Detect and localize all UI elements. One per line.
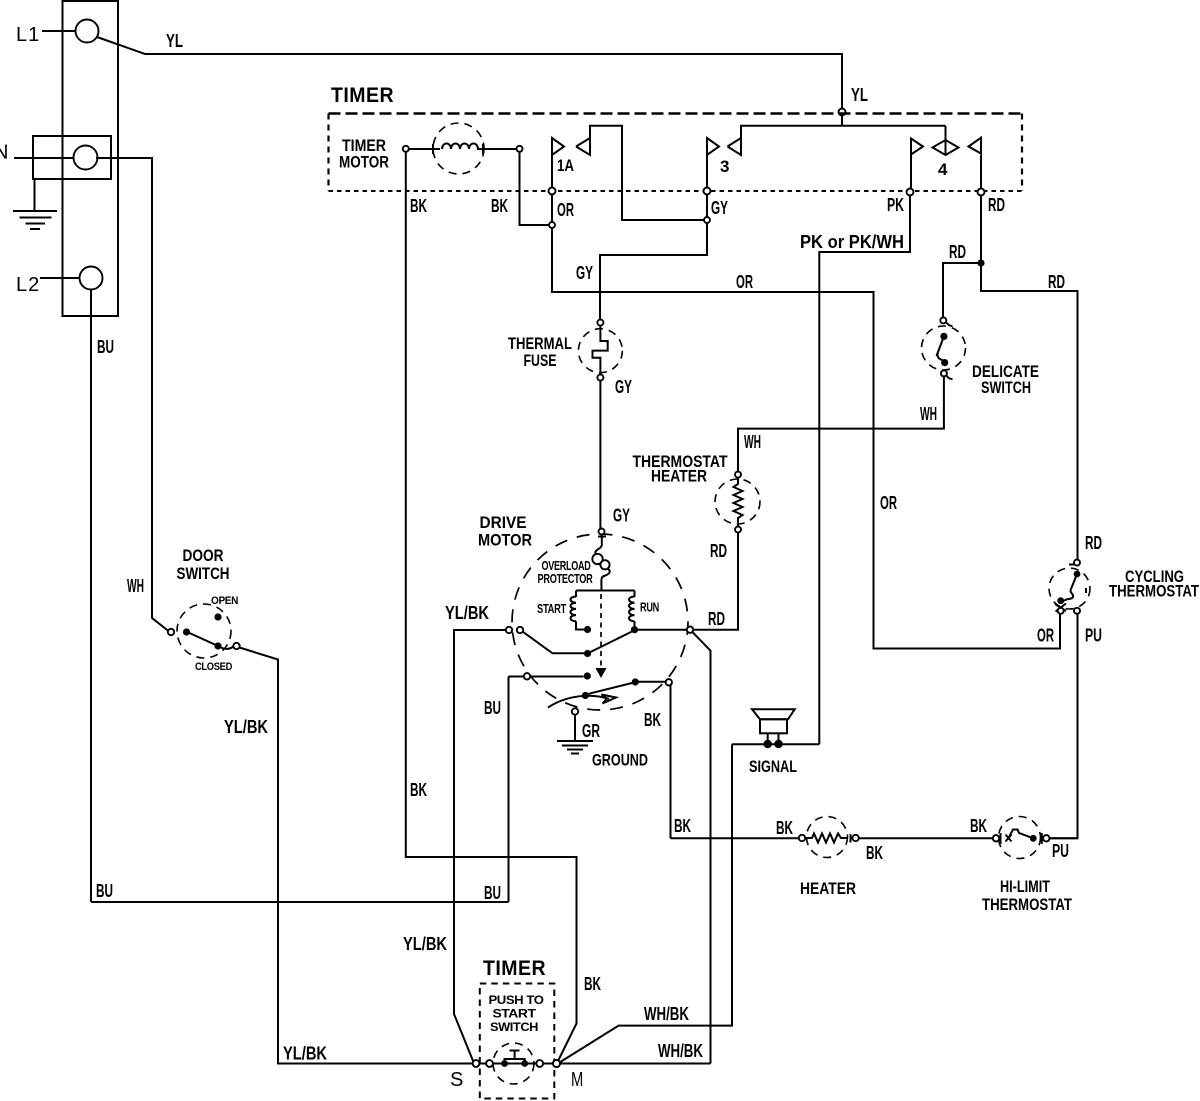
cycling thermostat PU terminal xyxy=(1074,608,1080,614)
svg-text:SIGNAL: SIGNAL xyxy=(749,757,797,776)
node lower contact a xyxy=(584,672,591,679)
push to start switch S5 xyxy=(473,1043,561,1084)
svg-text:YL: YL xyxy=(851,85,868,105)
wire signal bus xyxy=(732,743,819,745)
svg-text:OR: OR xyxy=(880,493,897,513)
node OR-BK junction xyxy=(549,222,555,228)
delicate switch top terminal xyxy=(940,317,946,323)
node door switch pivot xyxy=(183,628,190,635)
rotation arrowhead xyxy=(602,695,617,704)
ground chassis xyxy=(13,211,57,229)
svg-text:RD: RD xyxy=(988,195,1005,215)
wire GY fuse to motor xyxy=(599,381,601,529)
wire main S-M line xyxy=(278,1063,711,1065)
svg-text:YL/BK: YL/BK xyxy=(445,603,489,623)
start winding bottom lead xyxy=(576,621,585,629)
motor BU terminal xyxy=(524,673,530,679)
contact 1A left flag xyxy=(552,138,564,155)
node start winding contact xyxy=(584,626,591,633)
terminal M circle xyxy=(553,1060,560,1067)
svg-text:SWITCH: SWITCH xyxy=(490,1020,538,1034)
overload protector lead xyxy=(595,535,601,554)
N terminal box xyxy=(33,136,111,179)
svg-text:BK: BK xyxy=(970,816,987,836)
node signal terminal left xyxy=(764,740,772,748)
svg-text:BK: BK xyxy=(584,974,601,994)
wire BU motor down xyxy=(508,677,510,903)
thermostat heater resistor element xyxy=(734,478,743,527)
heater right terminal xyxy=(852,835,858,841)
svg-text:WH/BK: WH/BK xyxy=(658,1041,703,1061)
svg-text:THERMOSTAT: THERMOSTAT xyxy=(1109,582,1199,601)
wire to BK terminal xyxy=(635,681,665,683)
wire YL/BK motor to start switch xyxy=(454,630,506,1062)
contact 4 right flag xyxy=(969,138,982,154)
node door switch OPEN contact xyxy=(214,613,221,620)
wire BK timer motor right xyxy=(520,152,550,225)
svg-text:RD: RD xyxy=(710,541,727,561)
svg-text:4: 4 xyxy=(938,160,948,179)
thermostat heater bottom terminal xyxy=(735,527,741,533)
door switch S1 xyxy=(168,604,240,658)
svg-text:BK: BK xyxy=(644,710,661,730)
wire L2 lead xyxy=(40,277,80,279)
svg-text:WH: WH xyxy=(127,576,144,596)
svg-text:GY: GY xyxy=(711,198,728,218)
heater left terminal xyxy=(799,835,805,841)
svg-text:BU: BU xyxy=(97,337,114,357)
timer motor coil end ticks xyxy=(433,144,483,154)
wire BU from L2 down xyxy=(91,290,509,903)
node PK at timer border xyxy=(907,189,914,196)
thermal fuse top terminal xyxy=(597,320,603,326)
node GY at timer border xyxy=(704,188,711,195)
door switch dashed housing xyxy=(177,604,231,658)
contact 4 diamond wiper xyxy=(933,140,959,155)
svg-text:3: 3 xyxy=(720,157,729,176)
terminal L1 xyxy=(76,20,99,43)
wire WH/BK signal to M xyxy=(560,744,733,1062)
thermal fuse dashed housing xyxy=(578,329,622,373)
hi-limit contact cross xyxy=(1006,835,1012,842)
hi-limit right tick xyxy=(1041,833,1043,844)
cycling thermostat housing tick xyxy=(1085,588,1087,593)
wire YL/BK door switch to S xyxy=(240,648,474,1064)
overload protector outlet lead xyxy=(601,569,609,591)
svg-text:BU: BU xyxy=(484,698,501,718)
centrifugal switch arm upper xyxy=(523,632,585,654)
wire BU lead inside motor xyxy=(509,676,584,678)
motor YL/BK terminal outer xyxy=(506,627,512,633)
contact 4 left flag xyxy=(911,139,923,155)
timer box U1 xyxy=(329,114,1023,192)
motor BK terminal xyxy=(666,679,672,685)
node delicate switch top contact xyxy=(940,333,947,340)
svg-text:MOTOR: MOTOR xyxy=(339,153,389,172)
svg-text:WH/BK: WH/BK xyxy=(644,1004,689,1024)
wire RD thermostat heater down xyxy=(693,533,738,630)
motor terminal tick xyxy=(598,536,606,538)
node GY junction xyxy=(704,217,710,223)
push switch dashed housing xyxy=(493,1043,534,1084)
drive motor dashed housing xyxy=(512,534,688,710)
svg-text:BU: BU xyxy=(484,883,501,903)
svg-text:TIMER: TIMER xyxy=(483,957,546,980)
thermostat heater R1 xyxy=(715,472,760,533)
node RD at timer border xyxy=(978,189,985,196)
lower switch arm xyxy=(589,683,633,694)
timer motor dashed housing xyxy=(433,123,484,174)
wire YL from L1 to timer xyxy=(97,37,842,126)
hi-limit dashed housing xyxy=(999,817,1041,859)
rotation arrow arc xyxy=(548,696,609,708)
svg-text:HI-LIMIT: HI-LIMIT xyxy=(1000,877,1050,896)
svg-text:SWITCH: SWITCH xyxy=(981,378,1031,397)
svg-text:CLOSED: CLOSED xyxy=(195,661,232,673)
svg-text:START: START xyxy=(493,1007,537,1021)
wire BK motor to heater line xyxy=(670,685,672,839)
delicate switch top hook xyxy=(947,323,953,327)
svg-text:BK: BK xyxy=(491,196,508,216)
svg-text:BU: BU xyxy=(96,881,113,901)
thermostat heater dashed housing xyxy=(715,479,760,524)
actuator arrowhead xyxy=(596,668,607,678)
svg-text:RD: RD xyxy=(708,609,725,629)
svg-text:BK: BK xyxy=(410,780,427,800)
node run winding junction xyxy=(631,626,638,633)
wire N to chassis ground xyxy=(34,179,36,210)
svg-text:1A: 1A xyxy=(557,156,574,175)
svg-text:N: N xyxy=(0,142,9,164)
node push contact right xyxy=(521,1060,528,1067)
door switch arm xyxy=(190,633,219,646)
wire N lead xyxy=(14,157,74,159)
push switch bridge xyxy=(505,1059,525,1064)
thermostat heater top terminal xyxy=(735,472,741,478)
signal horn bell xyxy=(752,709,795,719)
cycling thermostat dashed housing xyxy=(1049,568,1090,609)
svg-text:L2: L2 xyxy=(16,274,40,296)
node signal terminal right xyxy=(774,740,782,748)
wire timer motor leads xyxy=(409,148,518,150)
start winding lead xyxy=(575,591,577,598)
svg-text:GY: GY xyxy=(576,263,593,283)
svg-text:SWITCH: SWITCH xyxy=(177,564,230,583)
terminal block TB1 xyxy=(63,1,119,316)
svg-text:FUSE: FUSE xyxy=(524,351,557,370)
overload protector disc 1 xyxy=(592,554,602,564)
run winding lead xyxy=(634,591,636,598)
push to start switch box xyxy=(480,984,555,1099)
node switch arm contact xyxy=(584,650,591,657)
wire PK to signal xyxy=(819,196,910,745)
node hi-limit contact xyxy=(1030,835,1037,842)
delicate switch arm xyxy=(937,336,944,360)
delicate switch bottom hook xyxy=(947,376,953,380)
node lower arm contact xyxy=(632,678,639,685)
cycling thermostat bimetal arm xyxy=(1064,574,1077,601)
svg-text:PU: PU xyxy=(1085,626,1102,646)
svg-text:YL: YL xyxy=(166,31,183,51)
svg-text:DRIVE: DRIVE xyxy=(480,513,527,532)
svg-text:DOOR: DOOR xyxy=(183,546,224,565)
svg-text:PU: PU xyxy=(1052,841,1069,861)
svg-text:PUSH TO: PUSH TO xyxy=(489,993,544,1007)
timer contact 1A xyxy=(552,126,704,220)
svg-text:PROTECTOR: PROTECTOR xyxy=(538,571,594,586)
svg-text:YL/BK: YL/BK xyxy=(403,934,447,954)
door switch left terminal xyxy=(168,629,174,635)
node RD junction dot xyxy=(977,259,984,266)
svg-text:MOTOR: MOTOR xyxy=(478,531,532,550)
drive motor M1 xyxy=(506,529,693,711)
heater dashed housing xyxy=(807,817,848,858)
push switch right terminal xyxy=(536,1060,543,1067)
svg-text:RUN: RUN xyxy=(640,600,659,615)
timer contact 3 xyxy=(707,126,946,188)
wire BK timer motor left xyxy=(406,152,577,1062)
overload protector disc 2 xyxy=(600,560,609,569)
contact 1A right flag and wire to GY node xyxy=(576,126,704,220)
timer motor coil xyxy=(442,144,478,150)
node door switch CLOSED contact xyxy=(214,642,221,649)
wire contact 4 feed xyxy=(945,126,947,140)
terminal L2 xyxy=(80,267,103,290)
svg-text:HEATER: HEATER xyxy=(800,879,856,898)
hi-limit bimetal arm xyxy=(1009,830,1034,839)
svg-text:THERMOSTAT: THERMOSTAT xyxy=(982,895,1072,914)
thermal fuse element xyxy=(593,326,608,375)
thermal fuse F1 xyxy=(578,320,622,381)
motor YL/BK terminal inner xyxy=(517,627,523,633)
svg-text:RD: RD xyxy=(1048,272,1065,292)
delicate switch dashed housing xyxy=(922,326,966,370)
contact 3 right flag and feed wire to contact 4 xyxy=(728,126,946,155)
terminal N xyxy=(74,146,98,170)
cycling thermostat contact cross xyxy=(1055,604,1066,612)
door switch contact hook xyxy=(221,647,234,649)
ground at motor xyxy=(557,741,593,754)
hi-limit left tick xyxy=(1000,833,1002,844)
node cycling thermostat top contact xyxy=(1074,571,1081,578)
timer motor left terminal xyxy=(403,146,409,152)
timer contact 4 xyxy=(911,126,981,188)
node OR at timer border xyxy=(549,188,556,195)
svg-text:RD: RD xyxy=(1085,533,1102,553)
motor RD terminal xyxy=(687,627,693,633)
svg-text:BK: BK xyxy=(776,818,793,838)
svg-text:OR: OR xyxy=(557,200,574,220)
heater resistor element xyxy=(805,834,848,843)
wire PU cycling to hi-limit xyxy=(1050,614,1078,839)
wire OR from timer to cycling thermostat xyxy=(552,195,1060,649)
hi-limit right terminal xyxy=(1043,835,1049,841)
wire WH from N to door switch xyxy=(96,158,169,631)
svg-text:OR: OR xyxy=(1037,626,1054,646)
start winding coil xyxy=(570,597,576,622)
node lower contact b xyxy=(582,692,589,699)
svg-text:YL/BK: YL/BK xyxy=(283,1044,327,1064)
wire L1 lead xyxy=(42,30,76,32)
motor ground terminal xyxy=(572,708,578,714)
motor GY terminal xyxy=(599,529,605,535)
terminal S circle xyxy=(473,1060,480,1067)
signal buzzer LS1 xyxy=(752,709,795,748)
thermal fuse bottom terminal xyxy=(597,375,603,381)
hi-limit thermostat S4 xyxy=(993,817,1050,859)
svg-text:PK: PK xyxy=(887,195,904,215)
cycling thermostat S3 xyxy=(1049,560,1090,614)
node YL entry circle xyxy=(839,109,846,116)
cycling thermostat OR terminal xyxy=(1058,608,1064,614)
svg-text:GR: GR xyxy=(582,721,600,741)
node push contact left xyxy=(501,1060,508,1067)
wire contact 4 legs to PK and RD border nodes xyxy=(911,155,981,188)
delicate switch bottom terminal xyxy=(941,370,947,376)
run winding bottom lead xyxy=(634,621,636,629)
cycling thermostat RD terminal xyxy=(1074,560,1080,566)
node cycling thermostat bottom contact xyxy=(1057,597,1064,604)
push switch actuator xyxy=(510,1051,520,1060)
wire contact 3 to GY border node xyxy=(706,137,708,188)
push switch left terminal xyxy=(486,1060,493,1067)
wire GY from timer to thermal fuse xyxy=(600,195,707,320)
signal leads xyxy=(768,733,779,741)
delicate switch S2 xyxy=(922,317,966,379)
svg-text:WH: WH xyxy=(920,404,937,424)
heater R2 xyxy=(799,817,859,858)
wire BK main heater line xyxy=(671,837,1078,839)
run winding coil xyxy=(629,597,635,622)
svg-text:HEATER: HEATER xyxy=(651,467,707,486)
heater terminal tick xyxy=(850,834,852,843)
wire switch contact to run junction xyxy=(591,632,633,653)
svg-text:GY: GY xyxy=(615,377,632,397)
svg-text:BK: BK xyxy=(410,196,427,216)
hi-limit left terminal xyxy=(993,835,999,841)
svg-text:BK: BK xyxy=(866,843,883,863)
winding bus bar xyxy=(576,590,635,592)
timer motor right terminal xyxy=(517,146,523,152)
contact 3 left flag xyxy=(707,138,719,155)
svg-text:OR: OR xyxy=(736,272,753,292)
node delicate switch bottom contact xyxy=(941,359,948,366)
svg-text:OPEN: OPEN xyxy=(211,595,238,607)
actuator dashed link xyxy=(600,594,602,666)
wire WH/BK motor to M terminal xyxy=(692,632,710,1064)
wire contact 1A to OR node xyxy=(551,137,553,188)
svg-text:PK or PK/WH: PK or PK/WH xyxy=(800,232,904,252)
svg-text:RD: RD xyxy=(949,242,966,262)
svg-text:YL/BK: YL/BK xyxy=(224,717,268,737)
wire RD from timer xyxy=(943,196,1078,561)
svg-text:GROUND: GROUND xyxy=(592,751,648,770)
svg-text:S: S xyxy=(450,1069,464,1091)
wire GR to ground xyxy=(574,715,576,741)
svg-text:GY: GY xyxy=(613,506,630,526)
svg-text:TIMER: TIMER xyxy=(331,84,394,107)
svg-text:START: START xyxy=(537,601,566,616)
svg-text:M: M xyxy=(571,1069,584,1091)
wire WH delicate to thermostat heater xyxy=(738,376,944,471)
svg-text:BK: BK xyxy=(674,816,691,836)
signal body xyxy=(760,719,787,733)
svg-text:L1: L1 xyxy=(16,24,40,46)
svg-text:WH: WH xyxy=(744,432,761,452)
door switch right terminal xyxy=(233,643,239,649)
timer motor TM xyxy=(403,123,523,174)
wire run junction to RD terminal xyxy=(635,629,688,631)
cycling thermostat top tick xyxy=(1069,564,1074,566)
